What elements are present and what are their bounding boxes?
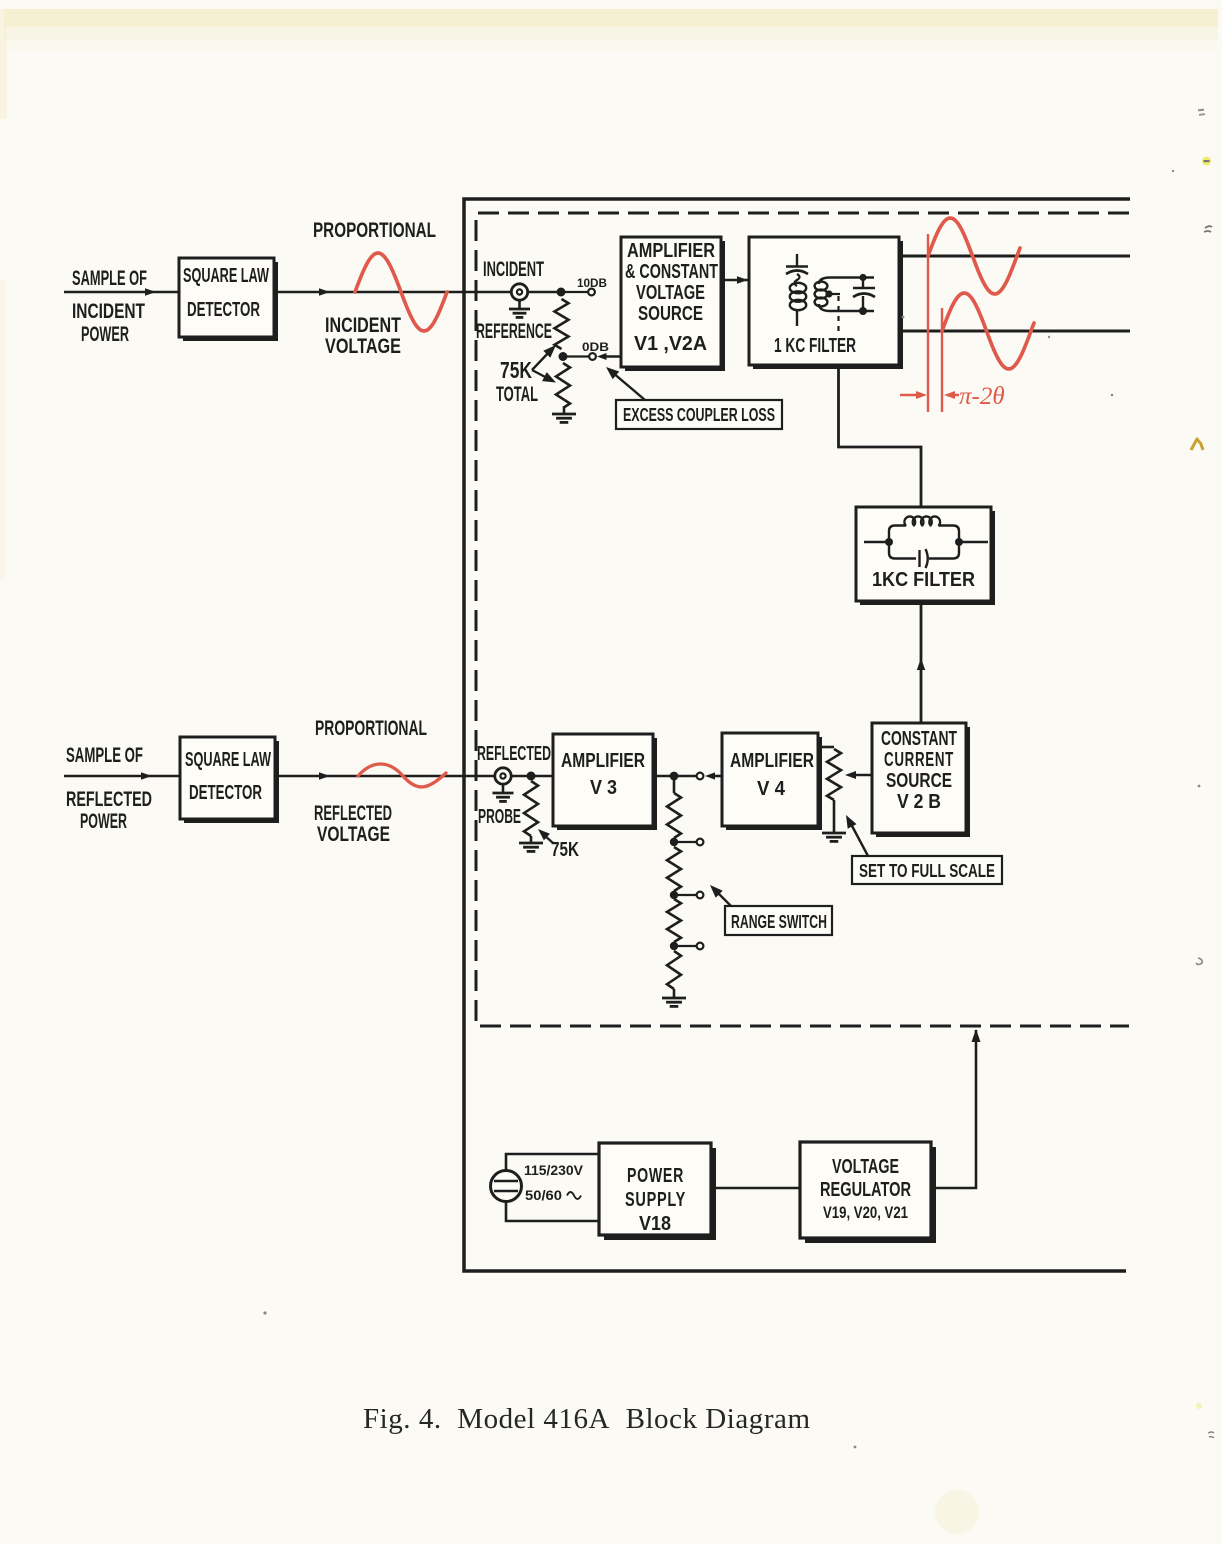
range switch divider chain	[667, 776, 681, 997]
svg-text:INCIDENT: INCIDENT	[72, 300, 145, 323]
svg-text:SQUARE LAW: SQUARE LAW	[183, 265, 269, 287]
AC line plug symbol	[491, 1171, 522, 1202]
enclosure dashed border	[476, 213, 1129, 1026]
resistor 75K (reflected)	[524, 781, 538, 836]
label box EXCESS COUPLER LOSS	[616, 400, 782, 429]
svg-text:115/230V: 115/230V	[524, 1163, 583, 1178]
svg-text:V18: V18	[639, 1213, 671, 1235]
svg-text:AMPLIFIER: AMPLIFIER	[627, 239, 715, 262]
red output sine wave 1	[928, 218, 1020, 294]
caption Fig. 4	[363, 1403, 810, 1435]
enclosure solid border	[464, 199, 1130, 1271]
label REFLECTED PROBE	[477, 743, 551, 828]
label box SET TO FULL SCALE with arrow	[846, 815, 1002, 884]
wire reflected input	[64, 772, 180, 780]
block amplifier V3	[553, 734, 657, 830]
svg-text:SAMPLE OF: SAMPLE OF	[72, 267, 147, 290]
label 75K with arrow	[538, 829, 579, 861]
wires plug to power supply	[506, 1154, 599, 1221]
potentiometer set to full scale	[822, 749, 846, 841]
F1 capacitor	[853, 274, 875, 315]
svg-text:POWER: POWER	[80, 810, 127, 833]
svg-text:VOLTAGE: VOLTAGE	[317, 823, 390, 846]
svg-text:1 KC FILTER: 1 KC FILTER	[774, 335, 856, 357]
svg-text:& CONSTANT: & CONSTANT	[625, 260, 718, 283]
F1 slug tap with dashed adjust line	[825, 290, 840, 336]
svg-text:V1 ,V2A: V1 ,V2A	[634, 332, 707, 355]
svg-text:SOURCE: SOURCE	[886, 770, 952, 792]
wire incident input	[64, 288, 179, 296]
svg-text:EXCESS COUPLER LOSS: EXCESS COUPLER LOSS	[623, 405, 775, 425]
svg-text:POWER: POWER	[627, 1165, 684, 1187]
node: SAMPLE OF REFLECTED POWER input label	[66, 744, 152, 833]
svg-text:VOLTAGE: VOLTAGE	[832, 1156, 899, 1178]
svg-text:Fig. 4. Model 416A Block Dia: Fig. 4. Model 416A Block Diagram	[363, 1403, 810, 1435]
wire detector to reflected probe	[275, 772, 553, 780]
square law detector (reflected)	[180, 737, 279, 823]
wire to 10DB terminal	[561, 289, 595, 296]
svg-text:10DB: 10DB	[577, 278, 607, 290]
label PROPORTIONAL INCIDENT VOLTAGE	[313, 219, 436, 358]
wiper arrow from V2B	[845, 771, 872, 779]
ground of 75K divider	[552, 408, 576, 422]
probe symbol (reflected)	[493, 768, 514, 802]
svg-text:PROBE: PROBE	[478, 806, 521, 828]
wire power supply to voltage regulator	[711, 1187, 800, 1190]
block power supply V18	[599, 1143, 716, 1240]
wire detector to reference node	[274, 288, 561, 296]
svg-text:REFLECTED: REFLECTED	[314, 802, 392, 825]
svg-text:1KC FILTER: 1KC FILTER	[872, 569, 975, 591]
node: SAMPLE OF INCIDENT POWER input label	[72, 267, 147, 346]
wire switch wiper to V4 with arrow	[705, 772, 722, 779]
wire V2B to F2 with arrow	[917, 601, 925, 723]
svg-text:VOLTAGE: VOLTAGE	[325, 335, 401, 358]
ground range switch	[662, 998, 686, 1006]
label 115/230V 50/60	[524, 1163, 583, 1203]
wire F1 bottom to F2 top	[839, 365, 922, 507]
paper tint band top	[0, 9, 1218, 580]
wire U1 to 1KC filter with arrow	[721, 276, 748, 284]
resistor lower (75K divider)	[556, 363, 570, 408]
node junction reflected 75K	[527, 772, 536, 781]
svg-text:REGULATOR: REGULATOR	[820, 1179, 911, 1201]
proportional incident voltage sine wave	[355, 253, 447, 331]
node junction at divider top	[557, 288, 566, 297]
block F2 1KC FILTER	[856, 507, 995, 605]
svg-text:PROPORTIONAL: PROPORTIONAL	[313, 219, 436, 242]
svg-text:AMPLIFIER: AMPLIFIER	[561, 749, 645, 772]
svg-text:REFLECTED: REFLECTED	[66, 788, 152, 811]
svg-text:SET TO FULL SCALE: SET TO FULL SCALE	[859, 861, 995, 881]
red output sine wave 2	[942, 293, 1034, 369]
scan specks	[263, 109, 1214, 1534]
block U1 amplifier & constant voltage source V1,V2A	[621, 237, 725, 371]
F2 parallel LC	[864, 516, 988, 568]
svg-text:REFERENCE: REFERENCE	[476, 320, 552, 343]
wire from amplifier to 0DB with arrow	[597, 353, 621, 360]
svg-text:SQUARE LAW: SQUARE LAW	[185, 749, 271, 771]
svg-text:DETECTOR: DETECTOR	[187, 299, 260, 321]
F1 primary inductor	[790, 283, 806, 326]
svg-text:REFLECTED: REFLECTED	[477, 743, 551, 765]
square law detector (incident)	[179, 258, 278, 341]
svg-text:75K: 75K	[500, 357, 532, 383]
node junction 0DB tap	[559, 352, 568, 361]
svg-text:V 3: V 3	[590, 776, 617, 799]
block voltage regulator V19,V20,V21	[800, 1142, 936, 1243]
F1 trimmer capacitor	[786, 254, 808, 286]
red phase reference line 2	[941, 308, 943, 412]
wire V4 to gain pot	[818, 746, 834, 749]
svg-text:CURRENT: CURRENT	[884, 749, 954, 771]
proportional reflected voltage sine wave	[358, 764, 446, 787]
label 10DB	[577, 278, 607, 290]
svg-text:V 4: V 4	[757, 777, 786, 800]
svg-text:INCIDENT: INCIDENT	[483, 258, 544, 281]
block amplifier V4	[722, 733, 822, 830]
probe symbol (incident reference)	[509, 284, 530, 318]
svg-text:V 2 B: V 2 B	[897, 791, 941, 813]
block constant current source V2B	[872, 723, 970, 837]
svg-text:SOURCE: SOURCE	[638, 302, 703, 325]
svg-text:RANGE SWITCH: RANGE SWITCH	[731, 912, 827, 932]
block F1 1 KC FILTER	[749, 237, 903, 369]
svg-text:CONSTANT: CONSTANT	[881, 728, 957, 750]
svg-text:SAMPLE OF: SAMPLE OF	[66, 744, 143, 767]
svg-text:AMPLIFIER: AMPLIFIER	[730, 749, 814, 772]
svg-text:0DB: 0DB	[582, 342, 609, 354]
label box RANGE SWITCH with arrow	[710, 885, 832, 935]
label PROPORTIONAL REFLECTED VOLTAGE	[314, 717, 427, 846]
svg-text:V19, V20, V21: V19, V20, V21	[823, 1203, 908, 1222]
red dimension arrows and pi-2theta label	[900, 383, 1005, 410]
label 75K TOTAL with pointer arrows	[496, 345, 556, 406]
red phase reference line 1	[927, 234, 929, 412]
label 0DB	[582, 342, 609, 354]
wire 0DB tap to terminal	[563, 353, 596, 360]
svg-text:POWER: POWER	[81, 323, 129, 346]
svg-text:75K: 75K	[551, 839, 579, 861]
F1 secondary winding loop	[815, 278, 874, 312]
wire F1 output upper	[899, 255, 1130, 258]
svg-text:DETECTOR: DETECTOR	[189, 782, 262, 804]
svg-text:PROPORTIONAL: PROPORTIONAL	[315, 717, 427, 740]
svg-text:50/60: 50/60	[525, 1188, 562, 1203]
svg-text:SUPPLY: SUPPLY	[625, 1189, 686, 1211]
ground 75K reflected	[519, 836, 543, 851]
svg-text:INCIDENT: INCIDENT	[325, 314, 401, 337]
wire F1 output lower	[899, 330, 1130, 333]
range switch tap contacts	[674, 839, 703, 950]
wire V3 to range switch junction	[653, 772, 703, 781]
svg-text:π-2θ: π-2θ	[959, 383, 1005, 410]
label INCIDENT REFERENCE	[476, 258, 552, 343]
arrow from excess coupler loss to 0DB	[606, 367, 645, 400]
resistor upper (75K divider)	[555, 299, 569, 349]
svg-text:TOTAL: TOTAL	[496, 383, 538, 406]
svg-text:VOLTAGE: VOLTAGE	[636, 281, 705, 304]
wire regulator to enclosure with arrow	[931, 1029, 981, 1188]
